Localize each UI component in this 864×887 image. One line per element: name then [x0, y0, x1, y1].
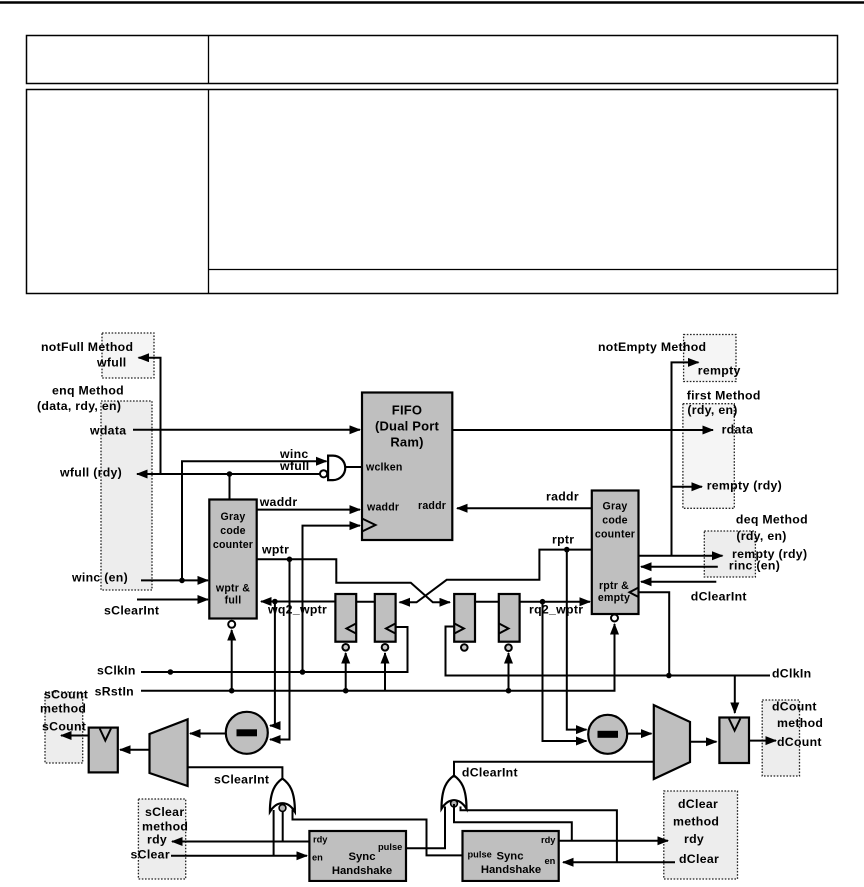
svg-text:raddr: raddr [418, 500, 446, 512]
and gate U1 wclken [328, 456, 345, 481]
table row 2 [27, 90, 838, 294]
gate input bubble [320, 470, 327, 477]
svg-text:waddr: waddr [366, 502, 399, 514]
svg-text:pulse: pulse [378, 842, 402, 852]
wire winc up to gate [182, 461, 327, 580]
FF2 clock notch [386, 624, 395, 634]
wire waddr counter to FIFO [257, 509, 360, 511]
minus sign right [598, 731, 619, 738]
wire sRstIn to FF4 reset [508, 653, 510, 691]
wire sClkIn to FIFO clock [303, 526, 361, 672]
wire subtractor to mux right [627, 733, 651, 735]
wire rdy to sClear method [172, 841, 309, 843]
svg-text:dClkIn: dClkIn [772, 667, 811, 681]
FF3 clock notch [454, 624, 464, 634]
node wq2_wptr junction [272, 599, 278, 605]
wire mux to sCount register [120, 749, 150, 751]
svg-text:first Method: first Method [687, 389, 761, 403]
dCount register [719, 718, 749, 764]
dClear method box [664, 791, 738, 879]
svg-text:dClear: dClear [678, 797, 718, 811]
FF4 clock notch [499, 624, 509, 634]
wire mux to dCount register [690, 741, 717, 743]
svg-text:rdy: rdy [313, 835, 328, 845]
dCount register clock triangle [729, 719, 741, 731]
svg-text:counter: counter [595, 529, 635, 541]
node or input dot right [451, 800, 458, 807]
wire right handshake pulse to left or gate [293, 810, 463, 856]
wire rinc (en) into read counter [641, 566, 718, 568]
FF1 reset bubble [342, 644, 349, 651]
subtractor left (wptr - wq2_wptr) [226, 712, 268, 754]
wire FF1 output wq2_wptr into write counter [261, 601, 335, 603]
wire sRstIn to FF1 reset [345, 653, 347, 691]
flip-flop FF3 rq2 sync [454, 594, 475, 642]
FIFO clock triangle [362, 519, 376, 532]
table row 1 column divider [208, 36, 210, 84]
svg-text:sCount: sCount [42, 720, 86, 734]
FF3 reset bubble [461, 644, 468, 651]
wire winc into counter [141, 579, 208, 581]
deq method box [704, 531, 755, 577]
svg-text:Gray: Gray [221, 511, 246, 523]
svg-text:en: en [312, 853, 323, 863]
wire rptr down to subtractor [567, 550, 587, 730]
wire dClearInt or to mux [454, 762, 654, 778]
wire dClearInt stub into read counter [641, 581, 716, 583]
wire sRstIn up to read counter reset [614, 624, 616, 691]
svg-text:winc (en): winc (en) [71, 571, 128, 585]
wire rempty (rdy) output of read counter [639, 555, 723, 557]
svg-text:Handshake: Handshake [481, 864, 541, 876]
svg-text:Sync: Sync [496, 851, 523, 863]
node sRstIn junction left [229, 688, 235, 694]
svg-text:dClearInt: dClearInt [462, 766, 518, 780]
notEmpty method box [684, 335, 736, 382]
table row 1 [27, 36, 838, 84]
wire dCount output [749, 740, 776, 742]
svg-text:(data, rdy, en): (data, rdy, en) [37, 399, 121, 413]
wire dClkIn to FF3 clock [446, 627, 771, 676]
svg-text:rdy: rdy [684, 832, 704, 846]
wire rempty (rdy) tap to first method [672, 486, 703, 488]
svg-text:full: full [225, 595, 242, 607]
svg-text:rptr: rptr [552, 533, 574, 547]
wire rdy to right or gate [454, 804, 572, 841]
FF1 clock notch [347, 624, 357, 634]
wire FF4 output rq2_wptr into read counter [520, 601, 590, 603]
node sRstIn FF1 junction [343, 688, 349, 694]
svg-text:empty: empty [598, 592, 630, 604]
svg-text:wq2_wptr: wq2_wptr [267, 603, 327, 617]
node sClkIn junction FIFO branch [300, 669, 306, 675]
wire subtractor to mux left [190, 733, 226, 735]
table row 2 column divider [208, 90, 210, 294]
subtractor right (rptr - rq2_wptr) [588, 715, 627, 754]
svg-text:dCount: dCount [772, 700, 817, 714]
svg-text:code: code [220, 525, 246, 537]
svg-text:dCount: dCount [777, 735, 822, 749]
or gate input from rdy [282, 806, 284, 842]
node wptr junction [287, 557, 293, 563]
svg-text:raddr: raddr [546, 490, 579, 504]
svg-text:sCount: sCount [44, 688, 88, 702]
wire dClear to right or gate [461, 807, 617, 863]
svg-text:Ram): Ram) [390, 435, 423, 450]
wire rptr from read counter [400, 550, 592, 603]
sClear method box [138, 799, 185, 879]
svg-text:wclken: wclken [365, 462, 403, 474]
node dClkIn junction [666, 673, 672, 679]
svg-text:method: method [142, 820, 188, 834]
node winc junction [179, 578, 185, 584]
sCount register clock triangle [100, 729, 111, 741]
sCount method box [45, 692, 83, 763]
table row 2 right-cell divider [209, 269, 838, 271]
wire full output of counter [229, 474, 231, 499]
or gate dClearInt [442, 776, 467, 809]
FF2 reset bubble [382, 644, 389, 651]
svg-text:waddr: waddr [259, 495, 298, 509]
svg-text:rptr &: rptr & [599, 580, 629, 592]
svg-text:rdata: rdata [722, 423, 754, 437]
svg-text:(rdy, en): (rdy, en) [736, 529, 786, 543]
wire wptr down to subtractor [270, 559, 290, 739]
FF4 reset bubble [505, 644, 512, 651]
svg-text:dClearInt: dClearInt [691, 590, 747, 604]
svg-text:method: method [673, 815, 719, 829]
svg-text:deq Method: deq Method [736, 513, 808, 527]
first method box [683, 404, 734, 509]
svg-text:(Dual Port: (Dual Port [375, 419, 440, 434]
wire rempty vertical trunk [672, 362, 699, 555]
wire raddr right counter to FIFO [457, 507, 592, 509]
svg-text:wfull (rdy): wfull (rdy) [59, 466, 122, 480]
wire wfull net [137, 473, 320, 475]
svg-text:en: en [545, 856, 556, 866]
svg-text:sClear: sClear [145, 805, 184, 819]
top rule [0, 1, 864, 3]
wire left pulse to right or gate [406, 807, 445, 849]
svg-text:Gray: Gray [603, 501, 628, 513]
wire sClear to handshake en [171, 855, 307, 857]
svg-text:wfull: wfull [96, 356, 127, 370]
wire rq2_wptr down to subtractor [543, 602, 587, 741]
dCount method box [762, 700, 799, 776]
svg-text:FIFO: FIFO [392, 403, 422, 418]
wire sRstIn to FF2 reset [384, 653, 386, 691]
gray code counter (read) [592, 491, 639, 615]
sClearInt stub into counter [137, 599, 208, 601]
FIFO dual port ram [362, 393, 452, 541]
svg-text:method: method [40, 702, 86, 716]
wire wptr to crossing and FF3 [257, 559, 450, 602]
svg-text:sClear: sClear [131, 848, 170, 862]
svg-text:rempty (rdy): rempty (rdy) [707, 479, 782, 493]
sync handshake left [309, 831, 406, 881]
svg-text:rq2_wptr: rq2_wptr [529, 603, 583, 617]
wire right rdy to dClear method [559, 840, 668, 842]
wire dClear to right handshake en [563, 861, 675, 863]
svg-text:code: code [602, 515, 628, 527]
node or input dot [279, 805, 286, 812]
wire gate output to wclken [346, 466, 362, 468]
wire FF2 to FF1 [356, 601, 375, 603]
wire FF3 to FF4 [475, 601, 499, 603]
svg-text:sClearInt: sClearInt [104, 604, 159, 618]
svg-text:Handshake: Handshake [332, 865, 392, 877]
svg-text:sClkIn: sClkIn [97, 664, 136, 678]
minus sign left [237, 729, 258, 736]
svg-text:wptr &: wptr & [215, 583, 250, 595]
mux right (dCount select) [654, 705, 690, 779]
wire wq2_wptr down to subtractor [270, 602, 275, 726]
node rptr junction [564, 547, 570, 553]
svg-text:wfull: wfull [279, 459, 310, 473]
enq method box [101, 401, 152, 590]
wire wfull into gate bubble [230, 473, 320, 475]
wire sClkIn to FF2 clock [141, 627, 408, 672]
svg-text:sClearInt: sClearInt [214, 773, 269, 787]
write counter reset bubble [228, 621, 235, 628]
svg-text:(rdy, en): (rdy, en) [687, 403, 737, 417]
svg-text:dClear: dClear [679, 852, 719, 866]
svg-text:Sync: Sync [348, 851, 375, 863]
svg-text:pulse: pulse [468, 850, 492, 860]
node sRstIn FF4 junction [506, 688, 512, 694]
wire sRstIn [141, 628, 615, 691]
gray code counter (write) [209, 500, 256, 619]
wire rdata FIFO to first method [452, 429, 713, 431]
svg-text:enq Method: enq Method [52, 384, 124, 398]
svg-text:counter: counter [213, 539, 253, 551]
wire sClearInt OR to mux [188, 767, 283, 780]
flip-flop FF1 wq2 sync [335, 594, 356, 642]
sCount register [89, 728, 118, 773]
sync handshake right [463, 831, 559, 881]
wire sRstIn to write counter reset [231, 630, 233, 691]
svg-text:rinc (en): rinc (en) [729, 559, 780, 573]
or gate input from sClear [273, 810, 275, 856]
svg-text:rdy: rdy [541, 835, 556, 845]
svg-text:sRstIn: sRstIn [95, 685, 134, 699]
wire dClkIn to dCount register clock [734, 676, 736, 714]
flip-flop FF2 wq2 sync [375, 594, 396, 642]
node sClkIn junction [168, 669, 174, 675]
read counter clock triangle [630, 588, 639, 598]
wire wfull to notFull method [139, 358, 161, 474]
node rq2_wptr junction [540, 599, 546, 605]
svg-text:wdata: wdata [89, 424, 126, 438]
node wfull junction [227, 471, 233, 477]
svg-text:notFull Method: notFull Method [41, 340, 133, 354]
svg-text:method: method [777, 716, 823, 730]
or gate sClearInt [270, 779, 295, 812]
flip-flop FF4 rq2 sync [499, 594, 520, 642]
mux left (sCount select) [150, 719, 188, 786]
svg-text:notEmpty Method: notEmpty Method [598, 340, 706, 354]
wire dClkIn to read counter clock [639, 592, 670, 673]
wire sCount output [61, 735, 89, 737]
svg-text:rempty: rempty [698, 364, 741, 378]
svg-text:wptr: wptr [261, 543, 289, 557]
svg-text:rdy: rdy [147, 833, 167, 847]
read counter reset bubble [611, 615, 618, 622]
notFull method box [102, 333, 154, 378]
wire wdata to FIFO [133, 429, 360, 431]
